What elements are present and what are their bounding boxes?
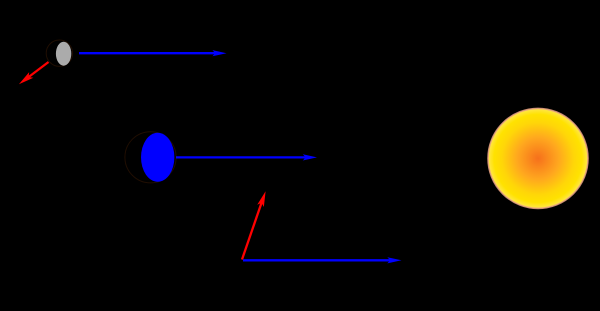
velocity arrow of middle grain (blue)	[176, 154, 317, 160]
velocity arrow of top grain (blue)	[79, 50, 227, 56]
re-emitted radiation arrow top (red, down-left)	[17, 62, 49, 87]
planet / grain middle (blue sphere)	[125, 132, 176, 183]
sun	[488, 108, 588, 208]
velocity vector bottom (blue, right)	[243, 257, 402, 263]
incoming radiation arrow bottom (red, up-right)	[242, 190, 269, 259]
dust grain top (shaded sphere)	[46, 40, 72, 66]
